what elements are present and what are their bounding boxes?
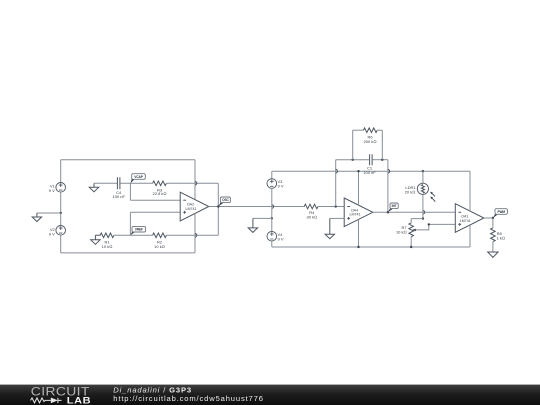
- svg-text:100 nF: 100 nF: [363, 170, 376, 175]
- node pot bottom on rail: [410, 246, 412, 248]
- ground stage2: [248, 218, 257, 232]
- voltage source V4: [267, 231, 277, 241]
- svg-text:10 kΩ: 10 kΩ: [396, 229, 407, 234]
- node output junction: [217, 205, 219, 207]
- wire R8 bottom stub: [492, 242, 494, 252]
- wire OA4 plus input: [330, 217, 344, 219]
- wire R8 top stub: [492, 218, 494, 228]
- resistor R2: [153, 233, 167, 238]
- wire R3 to feedback corner: [166, 182, 218, 184]
- hop V- over VREF row: [195, 234, 197, 238]
- wire R6 right vertical: [381, 130, 383, 160]
- wire OA2 output: [209, 206, 304, 208]
- node inverting node OA4: [335, 205, 337, 207]
- hop C1 left over rail: [336, 169, 338, 173]
- svg-text:22.8 kΩ: 22.8 kΩ: [153, 191, 167, 196]
- svg-text:20 kΩ: 20 kΩ: [405, 189, 416, 194]
- op-amp OA2: [180, 192, 209, 221]
- svg-text:9 V: 9 V: [278, 236, 284, 241]
- node LDR bottom junction: [422, 217, 424, 219]
- node V- on rail: [357, 246, 359, 248]
- wire gnd to C4: [94, 182, 117, 184]
- svg-text:9 V: 9 V: [49, 231, 55, 236]
- svg-text:OSC: OSC: [222, 198, 229, 202]
- logo resistor-diode glyph: [31, 398, 62, 403]
- wire bottom rail stage2: [272, 246, 470, 248]
- wire R1 to VREF: [114, 234, 153, 236]
- svg-text:10 kΩ: 10 kΩ: [102, 244, 113, 249]
- wire pot top stub: [410, 219, 412, 223]
- svg-text:VCAP: VCAP: [134, 175, 143, 179]
- capacitor C4: [117, 177, 120, 189]
- node mid supply junction stage2: [271, 217, 273, 219]
- wire plus input down to VREF: [129, 212, 131, 235]
- resistor R4: [304, 204, 318, 209]
- node INT flag: [388, 203, 398, 212]
- wire R6 left vertical: [352, 130, 354, 160]
- wire OA4 V+ pin: [358, 171, 360, 205]
- wire pot bottom stub: [410, 237, 412, 247]
- wire V3 to junction: [271, 188, 273, 218]
- op-amp OA4: [344, 198, 373, 227]
- wire inverting input row OA2: [130, 199, 180, 201]
- svg-text:30 kΩ: 30 kΩ: [306, 215, 317, 220]
- wire V3 top stub: [271, 171, 273, 179]
- ground stage1: [32, 213, 41, 222]
- wire C1 right vertical: [387, 160, 389, 213]
- ground for C4: [89, 183, 98, 192]
- svg-text:PWM: PWM: [497, 210, 505, 214]
- wire wiper to plus input: [416, 224, 455, 230]
- wire OA1 output: [484, 217, 493, 219]
- svg-text:9 V: 9 V: [278, 184, 284, 189]
- node PWM flag: [493, 209, 508, 218]
- resistor R1: [95, 233, 114, 238]
- ground R8: [488, 252, 498, 257]
- capacitor C1: [370, 154, 373, 165]
- node wiper corner: [428, 223, 430, 225]
- node R6 left on C1 row: [352, 159, 354, 161]
- wire OA2 V+ pin: [194, 160, 196, 200]
- svg-text:VREF: VREF: [135, 228, 143, 232]
- wire V1 top stub: [60, 160, 62, 183]
- svg-text:LM741: LM741: [186, 207, 197, 211]
- hop OSC wire over V3V4 vertical: [272, 205, 274, 209]
- node INT junction: [387, 211, 389, 213]
- voltage source V1: [56, 183, 66, 193]
- voltage source V2: [56, 226, 66, 236]
- wire to ground stage1: [37, 212, 61, 214]
- wire OA4 V- pin: [358, 220, 360, 248]
- svg-text:LM741: LM741: [350, 213, 361, 217]
- wire OA2 V- pin: [194, 214, 196, 253]
- ground for R1: [91, 235, 100, 244]
- wire top rail stage2: [272, 170, 470, 172]
- wire VCAP down to inverting input: [129, 183, 131, 200]
- wire C1 left vertical: [335, 160, 337, 207]
- wire V2 bottom stub: [60, 235, 62, 253]
- wire LDR top stub: [422, 171, 424, 183]
- node R6 right on C1 row: [381, 159, 383, 161]
- wire non-inverting input row OA2: [130, 211, 180, 213]
- wire LDR bottom stub: [422, 194, 424, 218]
- wire OA4 output row: [373, 211, 456, 213]
- ground OA4 plus input: [325, 218, 334, 238]
- wire V4 bottom stub: [271, 241, 273, 247]
- svg-text:200 kΩ: 200 kΩ: [364, 139, 377, 144]
- wire OA1 V- pin: [469, 225, 471, 247]
- wire junction to V4: [271, 218, 273, 231]
- svg-text:OA1: OA1: [461, 214, 468, 218]
- voltage source V3: [267, 179, 277, 189]
- photoresistor LDR1: [417, 183, 435, 201]
- hop C1 right over rail: [388, 169, 390, 173]
- wire C1 row right: [373, 159, 388, 161]
- svg-text:1 kΩ: 1 kΩ: [497, 236, 505, 241]
- wire C4 to R3: [120, 182, 152, 184]
- potentiometer R7: [409, 223, 416, 237]
- node VREF flag: [130, 226, 145, 235]
- wire bottom rail stage1: [61, 252, 195, 254]
- wire to ground stage2: [253, 217, 272, 219]
- svg-text:100 nF: 100 nF: [112, 194, 125, 199]
- wire junction to V2: [60, 213, 62, 226]
- svg-text:INT: INT: [392, 204, 397, 208]
- node VCAP flag: [130, 174, 145, 184]
- svg-text:http://circuitlab.com/cdw5ahuu: http://circuitlab.com/cdw5ahuust776: [113, 394, 263, 403]
- node V+ on rail: [357, 170, 359, 172]
- node LDR top on rail: [422, 170, 424, 172]
- svg-text:LAB: LAB: [67, 396, 91, 405]
- node PWM junction: [492, 217, 494, 219]
- node mid supply junction stage1: [60, 212, 62, 214]
- wire feedback vertical: [217, 183, 219, 235]
- op-amp OA1: [455, 204, 484, 233]
- node OSC flag: [218, 197, 230, 207]
- svg-text:9 V: 9 V: [49, 188, 55, 193]
- wire C1 row left: [336, 159, 369, 161]
- resistor R6: [363, 128, 377, 133]
- wire R4 to OA4: [318, 206, 344, 208]
- resistor R8: [491, 228, 496, 242]
- hop V+ over VCAP row: [195, 182, 197, 186]
- wire R2 to feedback corner: [166, 234, 218, 236]
- svg-text:LM741: LM741: [460, 219, 471, 223]
- wire V1 to mid junction: [60, 192, 62, 214]
- wire R6 row right: [377, 129, 382, 131]
- wire R6 row left: [353, 129, 364, 131]
- wire top rail stage1: [61, 159, 195, 161]
- wire LDR junction to pot top: [411, 218, 423, 220]
- resistor R3: [153, 181, 167, 186]
- hop LDR vertical over INT row: [423, 211, 425, 215]
- wire OA1 V+ pin: [469, 171, 471, 211]
- svg-text:10 kΩ: 10 kΩ: [154, 244, 165, 249]
